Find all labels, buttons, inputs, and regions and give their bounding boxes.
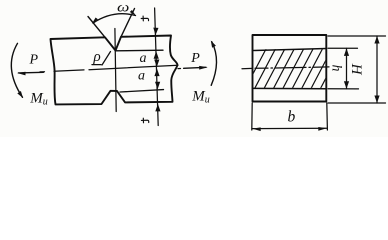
hatching: [245, 49, 351, 89]
H dimension line: [376, 36, 378, 103]
svg-text:b: b: [288, 108, 296, 125]
notch right extension line: [121, 9, 135, 37]
t label top: [141, 16, 148, 21]
omega angle arc: [93, 14, 136, 23]
extension line hatch bottom (h): [328, 88, 359, 90]
omega arc right arrowhead: [129, 10, 137, 16]
svg-text:P: P: [29, 53, 39, 68]
arrow down to bottom root line (a): [155, 82, 160, 90]
omega arc left arrowhead: [90, 17, 98, 24]
left moment arc: [11, 43, 22, 97]
arrow to top edge (t): [153, 28, 159, 36]
svg-text:a: a: [138, 69, 145, 84]
svg-text:P: P: [190, 51, 200, 66]
notch root line bottom: [120, 90, 164, 92]
h dimension line: [346, 48, 348, 88]
arrow down to centerline (a): [154, 60, 159, 68]
rho underline: [92, 64, 101, 66]
svg-text:Mи: Mи: [29, 91, 48, 108]
extension line top (H): [328, 35, 386, 37]
b extension lines: [251, 103, 253, 130]
svg-text:h: h: [330, 65, 345, 72]
arrow up to root line (a): [154, 51, 159, 59]
notch vertical centerline: [115, 29, 116, 112]
vertical dimension line t a a t: [155, 8, 159, 126]
notch left extension line: [88, 17, 105, 38]
t label bottom: [141, 118, 148, 123]
b dimension line: [252, 127, 327, 129]
outer rectangle: [253, 35, 327, 102]
rho leader line: [102, 52, 111, 66]
right P force arrow: [178, 68, 181, 70]
extension line bottom (H): [328, 102, 386, 104]
svg-text:ω: ω: [117, 0, 129, 15]
hatched band bottom line: [253, 87, 327, 89]
svg-text:a: a: [140, 51, 147, 66]
extension line hatch top (h): [328, 47, 358, 49]
bar outline: [51, 36, 178, 105]
hatched band top line: [253, 49, 327, 51]
notch root line top: [116, 49, 164, 52]
svg-text:H: H: [348, 63, 364, 76]
svg-text:Mи: Mи: [191, 88, 210, 105]
left P force arrow: [19, 71, 44, 74]
section centerline: [242, 67, 252, 69]
horizontal centerline of bar: [40, 71, 45, 73]
arrow up to bottom edge (t): [155, 104, 160, 112]
arrow up from centerline (a): [154, 69, 159, 77]
svg-text:ρ: ρ: [93, 49, 101, 65]
right moment arc: [211, 42, 216, 86]
